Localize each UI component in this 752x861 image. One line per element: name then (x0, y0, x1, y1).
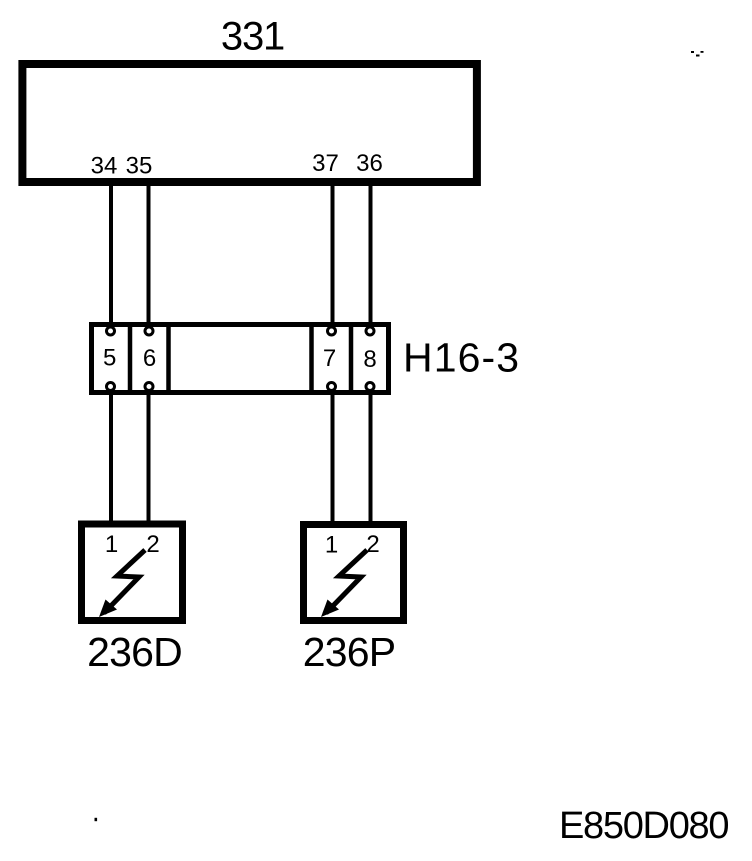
svg-text:236P: 236P (303, 629, 396, 675)
svg-text:2: 2 (146, 531, 159, 558)
svg-text:35: 35 (126, 153, 153, 180)
svg-text:331: 331 (221, 15, 284, 59)
svg-text:236D: 236D (87, 629, 182, 675)
svg-text:8: 8 (363, 346, 376, 373)
svg-text:H16-3: H16-3 (403, 335, 520, 381)
svg-text:1: 1 (105, 531, 118, 558)
svg-text:E850D080: E850D080 (559, 805, 728, 847)
svg-text:2: 2 (366, 531, 379, 558)
svg-text:5: 5 (103, 345, 116, 372)
svg-text:36: 36 (356, 150, 383, 177)
svg-text:34: 34 (91, 153, 118, 180)
svg-text:37: 37 (312, 150, 339, 177)
svg-text:6: 6 (143, 345, 156, 372)
svg-text:1: 1 (325, 532, 338, 559)
svg-text:7: 7 (323, 345, 336, 372)
